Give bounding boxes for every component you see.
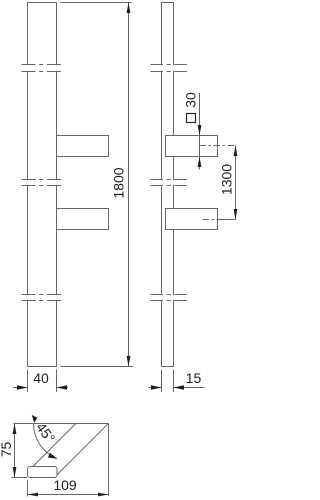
svg-text:109: 109 [53, 477, 77, 493]
dimension 1300 [235, 146, 237, 220]
svg-text:75: 75 [0, 442, 14, 458]
svg-text:30: 30 [183, 92, 199, 108]
dimension 109 [28, 480, 109, 497]
svg-text:15: 15 [186, 370, 202, 386]
svg-text:1800: 1800 [111, 167, 127, 198]
angle 45 arc [34, 424, 57, 459]
dimension 15 [149, 370, 205, 393]
pull handle bar, side view [162, 3, 174, 367]
centerline block 1 [200, 146, 236, 220]
detail right extension line [108, 424, 110, 497]
grip cross-section [28, 467, 58, 478]
mounting block 1, front view [57, 136, 109, 157]
dimension 1800 [61, 3, 134, 367]
dimension 75 [12, 424, 28, 478]
svg-text:1300: 1300 [219, 164, 235, 195]
break lines side view [151, 65, 188, 301]
break lines front view [22, 65, 62, 301]
arm upper diagonal [33, 423, 76, 466]
break gap masks [21, 65, 188, 300]
leader square 30 [199, 93, 201, 170]
mounting block 2, front view [57, 209, 109, 230]
pull handle bar, front view [28, 3, 57, 367]
dimension 40 [13, 370, 68, 393]
centerline block 2 [203, 219, 236, 221]
arm lower diagonal [57, 423, 108, 474]
svg-text:40: 40 [33, 370, 49, 386]
square symbol [187, 114, 196, 123]
mounting block 1, side view [166, 136, 218, 157]
mounting block 2, side view [166, 209, 218, 230]
detail view: door face top edge [14, 423, 109, 496]
